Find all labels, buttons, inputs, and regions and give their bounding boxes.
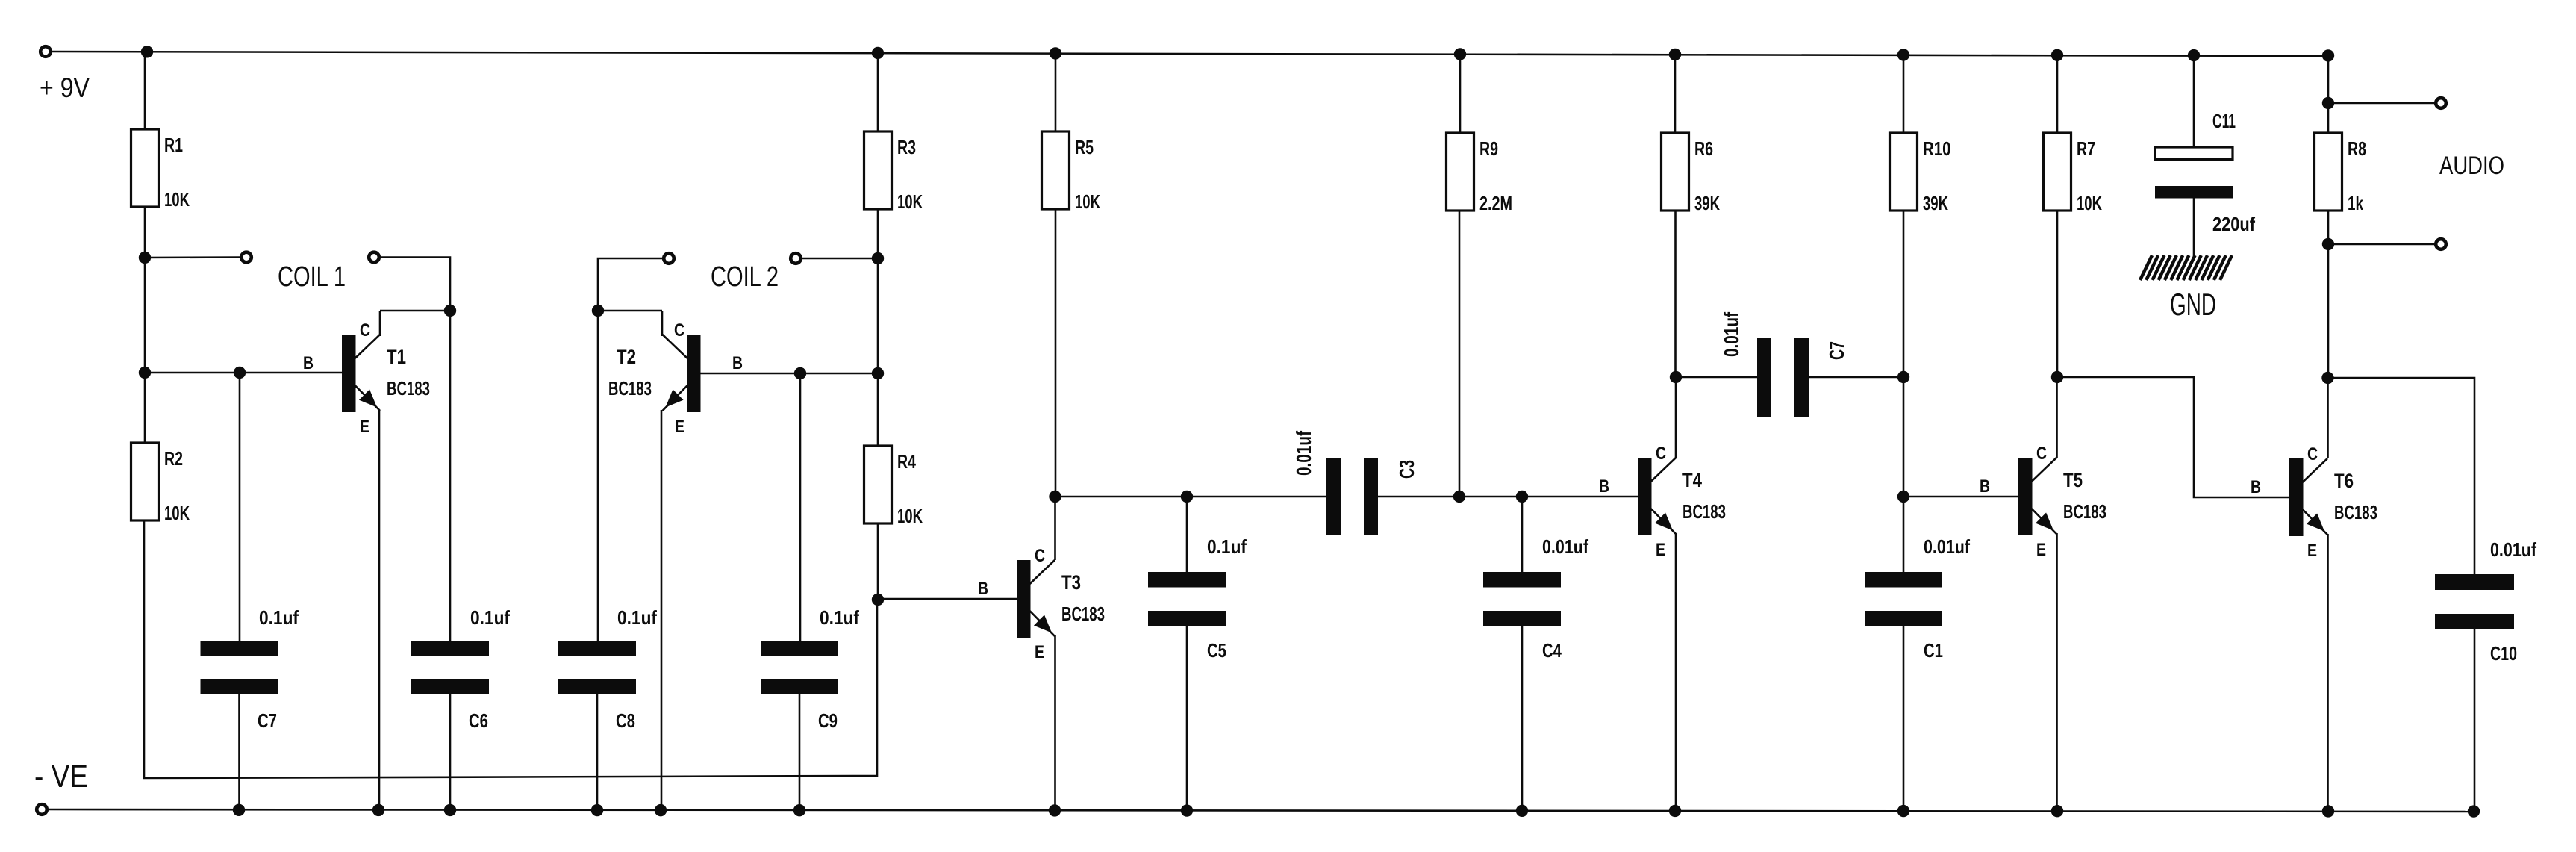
wire R1 bottom to coil1 tap bbox=[144, 206, 146, 258]
wire C6 bottom bbox=[449, 694, 452, 810]
junction bottom rail x=885 bbox=[655, 804, 667, 816]
svg-text:10K: 10K bbox=[1075, 190, 1100, 213]
svg-text:R2: R2 bbox=[164, 447, 183, 470]
wire R10 top bbox=[1903, 55, 1905, 134]
capacitor C10 bbox=[2435, 574, 2514, 629]
terminal COIL2 left bbox=[664, 253, 674, 264]
svg-text:C: C bbox=[1656, 444, 1666, 464]
transistor T2 symbol bbox=[663, 335, 701, 412]
svg-text:C7: C7 bbox=[258, 709, 277, 732]
node coil1 feed bbox=[139, 252, 151, 264]
node R9 tap bbox=[1453, 491, 1465, 503]
svg-text:E: E bbox=[2307, 541, 2317, 561]
wire T1 base bbox=[145, 372, 342, 374]
svg-text:C: C bbox=[2307, 444, 2318, 464]
svg-text:C11: C11 bbox=[2212, 110, 2236, 132]
junction bottom rail x=2550 bbox=[1897, 805, 1909, 817]
wire T2 base bbox=[701, 373, 879, 375]
svg-text:B: B bbox=[1980, 476, 1990, 497]
wire AUDIO bottom bbox=[2328, 243, 2436, 246]
wire coil1 left bbox=[145, 256, 240, 258]
wire R5 bottom bbox=[1055, 208, 1057, 497]
svg-text:R3: R3 bbox=[897, 136, 916, 158]
svg-text:BC183: BC183 bbox=[1061, 603, 1105, 625]
resistor R5 bbox=[1042, 131, 1101, 213]
wire T6 collector bbox=[2327, 378, 2329, 458]
svg-text:BC183: BC183 bbox=[2334, 501, 2377, 523]
wire R8 top bbox=[2327, 55, 2330, 103]
wire C1 top bbox=[1903, 497, 1905, 573]
svg-text:COIL 1: COIL 1 bbox=[278, 261, 346, 293]
capacitor C1 bbox=[1865, 572, 1942, 626]
wire C7b to R10 bbox=[1809, 376, 1903, 379]
svg-text:C4: C4 bbox=[1542, 639, 1562, 662]
svg-text:1k: 1k bbox=[2348, 192, 2363, 214]
node C4 tap bbox=[1516, 491, 1528, 503]
svg-text:C7: C7 bbox=[1825, 341, 1848, 360]
wire T5 emitter bbox=[2056, 533, 2058, 810]
svg-text:E: E bbox=[360, 417, 369, 437]
svg-text:B: B bbox=[303, 353, 314, 373]
wire R1 top bbox=[144, 52, 146, 130]
wire coil1 tap to T1 base node bbox=[144, 258, 146, 373]
svg-text:10K: 10K bbox=[164, 502, 190, 524]
wire R3 top bbox=[877, 53, 879, 132]
resistor R2 bbox=[131, 443, 190, 524]
capacitor C4 bbox=[1483, 572, 1561, 626]
node T2 collector bbox=[592, 305, 604, 317]
junction top rail x=1176 bbox=[872, 47, 884, 59]
node T1 base bbox=[139, 367, 151, 379]
wire T5 collector bbox=[2056, 377, 2058, 458]
labels T6 bbox=[2251, 444, 2377, 561]
wire +9V top rail bbox=[51, 52, 2328, 56]
svg-text:C10: C10 bbox=[2490, 642, 2517, 665]
junction top rail x=1956 bbox=[1454, 48, 1466, 60]
ground symbol bbox=[2140, 255, 2232, 280]
wire coil2 left to T2 collector node bbox=[598, 258, 664, 311]
junction top rail x=197 bbox=[141, 46, 153, 57]
svg-text:B: B bbox=[732, 353, 743, 373]
transistor T5 symbol bbox=[2018, 458, 2056, 535]
junction top rail x=2550 bbox=[1897, 49, 1909, 60]
wire T1 collector link bbox=[380, 310, 450, 312]
node AUDIO top tap bbox=[2322, 97, 2334, 109]
transistor T3 symbol bbox=[1017, 560, 1055, 638]
svg-text:B: B bbox=[1599, 476, 1609, 497]
node T4 collector bbox=[1670, 371, 1682, 383]
svg-text:39K: 39K bbox=[1694, 192, 1720, 214]
svg-text:0.01uf: 0.01uf bbox=[1292, 431, 1315, 476]
junction top rail x=2244 bbox=[1669, 49, 1681, 60]
svg-text:COIL 2: COIL 2 bbox=[711, 261, 779, 293]
terminal COIL2 right bbox=[790, 253, 801, 264]
wire R10 to T5 base node bbox=[1903, 377, 1905, 497]
terminal AUDIO top bbox=[2436, 98, 2446, 108]
wire C5 bottom bbox=[1186, 626, 1188, 810]
terminal COIL1 left bbox=[241, 252, 252, 263]
wire base tap to R4 bbox=[877, 373, 879, 447]
svg-text:T4: T4 bbox=[1682, 469, 1702, 491]
svg-text:10K: 10K bbox=[164, 188, 190, 211]
svg-text:GND: GND bbox=[2170, 287, 2216, 322]
node T5 base bbox=[1897, 491, 1909, 503]
svg-text:0.01uf: 0.01uf bbox=[2490, 538, 2536, 561]
svg-text:T3: T3 bbox=[1061, 571, 1081, 594]
svg-text:E: E bbox=[1035, 642, 1044, 662]
node R3-R4 base tap bbox=[872, 367, 884, 379]
wire C3 to T4 base bbox=[1378, 496, 1638, 498]
wire -VE bottom rail bbox=[47, 809, 2474, 812]
svg-text:R10: R10 bbox=[1923, 137, 1951, 160]
node C9 tap bbox=[794, 367, 806, 379]
svg-text:T1: T1 bbox=[387, 346, 406, 368]
svg-text:0.1uf: 0.1uf bbox=[617, 606, 657, 629]
svg-text:B: B bbox=[2251, 477, 2261, 497]
wire R5 top bbox=[1055, 53, 1057, 132]
wire T3 emitter bbox=[1054, 635, 1056, 810]
junction bottom rail x=507 bbox=[372, 804, 384, 816]
svg-text:0.1uf: 0.1uf bbox=[470, 606, 510, 629]
svg-text:0.01uf: 0.01uf bbox=[1542, 535, 1588, 558]
resistor R3 bbox=[864, 131, 923, 213]
wire R7 bottom bbox=[2056, 210, 2059, 377]
capacitor C8 bbox=[558, 641, 636, 694]
node C7a tap bbox=[234, 367, 246, 379]
junction bottom rail x=320 bbox=[233, 804, 245, 816]
wire R3 bottom bbox=[877, 208, 879, 258]
transistor T1 symbol bbox=[342, 335, 380, 412]
wire C4 top bbox=[1521, 497, 1524, 573]
wire T2 collector vertical bbox=[661, 311, 664, 336]
labels T1 bbox=[303, 320, 430, 437]
wire C9 top bbox=[799, 373, 802, 641]
svg-text:39K: 39K bbox=[1923, 192, 1948, 214]
junction bottom rail x=3314 bbox=[2468, 805, 2480, 817]
capacitor C7a bbox=[201, 641, 278, 694]
svg-text:T6: T6 bbox=[2334, 470, 2354, 492]
node C5 tap bbox=[1181, 491, 1193, 503]
wire T5 base bbox=[1903, 496, 2018, 498]
resistor R9 bbox=[1447, 133, 1513, 214]
node T3 collector bbox=[1049, 491, 1061, 503]
-VE supply terminal bbox=[37, 804, 47, 815]
capacitor C11 top plate bbox=[2155, 147, 2233, 160]
svg-text:BC183: BC183 bbox=[2063, 500, 2106, 523]
capacitor C9 bbox=[761, 641, 838, 694]
svg-text:R7: R7 bbox=[2077, 137, 2095, 160]
wire C11 to ground bbox=[2193, 198, 2195, 256]
node AUDIO bottom tap bbox=[2322, 238, 2334, 250]
wire audio top tap to R8 bbox=[2327, 103, 2330, 134]
svg-text:R9: R9 bbox=[1479, 137, 1498, 160]
node T1 collector bbox=[444, 305, 456, 317]
junction bottom rail x=2244 bbox=[1669, 805, 1681, 817]
svg-text:R6: R6 bbox=[1694, 137, 1713, 160]
capacitor C5 bbox=[1148, 572, 1226, 626]
junction top rail x=2756 bbox=[2051, 49, 2063, 61]
svg-text:C6: C6 bbox=[469, 709, 488, 732]
svg-text:10K: 10K bbox=[897, 505, 923, 527]
wire C1 bottom bbox=[1903, 626, 1905, 810]
wire R9 bottom bbox=[1459, 210, 1461, 497]
node T3 base bbox=[872, 594, 884, 606]
resistor R6 bbox=[1662, 133, 1721, 214]
wire coil2 right bbox=[801, 258, 878, 260]
wire R4 bottom bbox=[877, 523, 879, 600]
svg-text:C3: C3 bbox=[1395, 460, 1418, 479]
transistor T6 symbol bbox=[2289, 458, 2327, 536]
node R10 C7b tap bbox=[1897, 371, 1909, 383]
labels T5 bbox=[1980, 444, 2106, 560]
junction top rail x=2939 bbox=[2188, 49, 2200, 61]
wire T6 collector to C10 bbox=[2328, 378, 2474, 575]
wire AUDIO top bbox=[2328, 102, 2436, 105]
svg-text:BC183: BC183 bbox=[608, 377, 652, 399]
wire C7a top bbox=[239, 373, 241, 641]
wire T4 emitter bbox=[1675, 533, 1677, 810]
wire R6 bottom bbox=[1674, 210, 1677, 377]
wire base node to R2 bbox=[144, 373, 146, 444]
junction bottom rail x=1071 bbox=[793, 804, 805, 816]
svg-text:10K: 10K bbox=[2077, 192, 2102, 214]
labels T3 bbox=[978, 546, 1105, 662]
junction bottom rail x=603 bbox=[444, 804, 456, 816]
resistor R10 bbox=[1890, 133, 1951, 214]
wire T3 collector row bbox=[1055, 496, 1327, 498]
svg-text:BC183: BC183 bbox=[387, 377, 430, 399]
svg-text:C: C bbox=[674, 320, 684, 341]
svg-text:220uf: 220uf bbox=[2212, 213, 2255, 235]
transistor T4 symbol bbox=[1638, 458, 1676, 535]
wire T6 emitter bbox=[2327, 534, 2329, 810]
svg-text:C9: C9 bbox=[818, 709, 838, 732]
svg-text:C: C bbox=[1035, 546, 1045, 566]
svg-text:C8: C8 bbox=[616, 709, 635, 732]
resistor R8 bbox=[2315, 133, 2367, 214]
wire C8 top bbox=[597, 311, 599, 641]
svg-text:R4: R4 bbox=[897, 450, 916, 473]
wire R10 bottom bbox=[1903, 210, 1905, 377]
svg-text:C5: C5 bbox=[1207, 639, 1226, 662]
junction top rail x=3119 bbox=[2322, 49, 2334, 61]
svg-text:+ 9V: + 9V bbox=[40, 72, 90, 103]
wire T5 collector to T6 base bbox=[2057, 377, 2289, 497]
svg-text:T5: T5 bbox=[2063, 469, 2083, 491]
wire R2 bottom / -VE bias line bbox=[144, 520, 877, 778]
wire coil2 tap to base tap bbox=[877, 258, 879, 373]
wire C8 bottom bbox=[596, 694, 599, 810]
wire C11 top bbox=[2193, 55, 2195, 148]
junction bottom rail x=3119 bbox=[2322, 805, 2334, 817]
junction bottom rail x=1590 bbox=[1181, 804, 1193, 816]
junction bottom rail x=2039 bbox=[1516, 805, 1528, 817]
resistor R1 bbox=[131, 129, 190, 211]
capacitor C6 bbox=[411, 641, 489, 694]
svg-text:C: C bbox=[360, 320, 370, 341]
svg-text:R1: R1 bbox=[164, 134, 183, 156]
wire C7a bottom bbox=[238, 694, 240, 810]
labels T2 bbox=[608, 320, 743, 437]
junction top rail x=1414 bbox=[1050, 47, 1061, 59]
svg-text:0.01uf: 0.01uf bbox=[1924, 535, 1970, 558]
wire T3 collector bbox=[1054, 497, 1056, 560]
svg-text:0.01uf: 0.01uf bbox=[1720, 312, 1743, 357]
svg-text:E: E bbox=[1656, 540, 1665, 560]
node R3-R4 coil2 tap bbox=[872, 252, 884, 264]
wire R8 to T6 collector node bbox=[2327, 244, 2330, 378]
terminal AUDIO bottom bbox=[2436, 239, 2446, 249]
wire C4 bottom bbox=[1521, 626, 1524, 810]
labels T4 bbox=[1599, 444, 1726, 560]
wire T3 base bbox=[878, 598, 1017, 600]
wire T4 collector to C7b bbox=[1676, 376, 1757, 379]
junction bottom rail x=2756 bbox=[2051, 805, 2063, 817]
svg-text:E: E bbox=[2036, 540, 2046, 560]
wire R6 top bbox=[1674, 55, 1677, 134]
svg-text:C: C bbox=[2036, 444, 2047, 464]
svg-text:- VE: - VE bbox=[34, 759, 88, 795]
svg-text:R8: R8 bbox=[2348, 137, 2366, 160]
svg-text:E: E bbox=[675, 417, 684, 437]
capacitor C7b bbox=[1757, 338, 1809, 417]
capacitor C3 bbox=[1326, 458, 1378, 535]
resistor R7 bbox=[2044, 133, 2103, 214]
wire C9 bottom bbox=[799, 694, 801, 810]
capacitor C11 bottom plate bbox=[2155, 186, 2233, 199]
wire R8 bottom bbox=[2327, 210, 2330, 244]
wire T4 collector bbox=[1675, 377, 1677, 458]
wire R7 top bbox=[2056, 55, 2059, 134]
wire T2 collector link bbox=[598, 310, 662, 312]
junction bottom rail x=1413 bbox=[1049, 804, 1061, 816]
svg-text:BC183: BC183 bbox=[1682, 500, 1726, 523]
wire C5 top bbox=[1186, 497, 1188, 573]
svg-text:T2: T2 bbox=[617, 346, 636, 368]
junction bottom rail x=800 bbox=[591, 804, 603, 816]
wire C10 bottom bbox=[2474, 629, 2476, 811]
resistor R4 bbox=[864, 446, 923, 527]
terminal COIL1 right bbox=[369, 252, 379, 263]
svg-text:2.2M: 2.2M bbox=[1479, 192, 1512, 214]
svg-text:0.1uf: 0.1uf bbox=[1207, 535, 1247, 558]
wire coil1 right to T1 collector node bbox=[380, 258, 450, 311]
svg-text:AUDIO: AUDIO bbox=[2439, 152, 2504, 180]
wire T2 emitter bbox=[661, 410, 663, 810]
wire R9 top bbox=[1459, 54, 1462, 134]
wire C6 top bbox=[449, 311, 452, 641]
svg-text:R5: R5 bbox=[1075, 136, 1094, 158]
wire T1 emitter bbox=[378, 410, 381, 810]
wire T1 collector vertical bbox=[379, 311, 381, 336]
svg-text:0.1uf: 0.1uf bbox=[820, 606, 859, 629]
node T6 collector bbox=[2321, 372, 2333, 384]
svg-text:10K: 10K bbox=[897, 190, 923, 213]
svg-text:0.1uf: 0.1uf bbox=[259, 606, 299, 629]
+9V supply terminal bbox=[40, 46, 51, 57]
svg-text:C1: C1 bbox=[1924, 639, 1943, 662]
svg-text:B: B bbox=[978, 579, 988, 599]
node T5 collector bbox=[2051, 371, 2063, 383]
